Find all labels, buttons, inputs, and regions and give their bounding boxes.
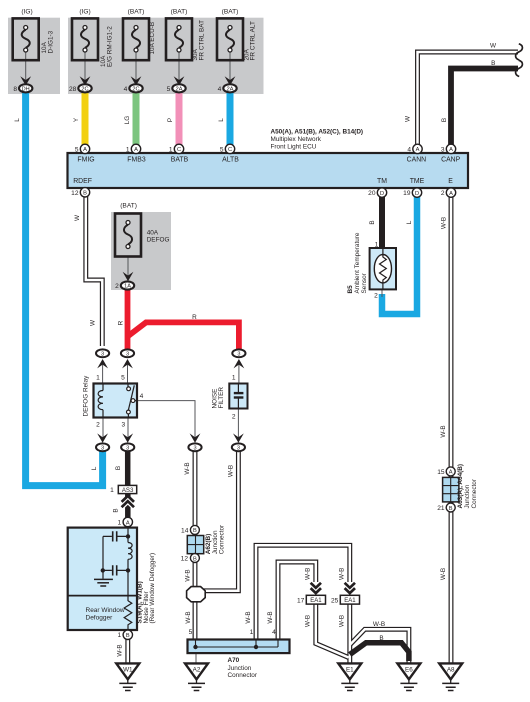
svg-text:W-B: W-B bbox=[184, 569, 191, 581]
svg-text:A: A bbox=[449, 470, 453, 476]
svg-text:D: D bbox=[380, 191, 384, 197]
svg-text:W-B: W-B bbox=[338, 615, 345, 627]
svg-text:1: 1 bbox=[118, 519, 122, 526]
svg-text:L: L bbox=[406, 220, 413, 224]
svg-text:FMIG: FMIG bbox=[77, 156, 94, 163]
svg-text:A8: A8 bbox=[447, 667, 455, 674]
svg-text:B: B bbox=[115, 466, 122, 470]
svg-text:1: 1 bbox=[169, 146, 173, 153]
svg-text:5: 5 bbox=[189, 629, 193, 636]
svg-text:W-B: W-B bbox=[117, 644, 124, 656]
svg-text:3: 3 bbox=[101, 351, 104, 357]
svg-text:5: 5 bbox=[121, 375, 125, 382]
svg-text:CANN: CANN bbox=[407, 156, 427, 163]
svg-text:2: 2 bbox=[441, 190, 445, 197]
svg-text:Y: Y bbox=[73, 117, 80, 122]
svg-text:FR CTRL ALT: FR CTRL ALT bbox=[250, 21, 257, 61]
svg-text:2: 2 bbox=[115, 283, 119, 290]
svg-text:1: 1 bbox=[375, 242, 379, 249]
svg-text:40A: 40A bbox=[147, 230, 159, 237]
svg-text:1A: 1A bbox=[124, 284, 131, 290]
svg-text:A: A bbox=[126, 520, 130, 526]
svg-text:A2: A2 bbox=[193, 667, 201, 674]
svg-text:Connector: Connector bbox=[219, 524, 226, 554]
svg-text:W-B: W-B bbox=[373, 621, 385, 628]
svg-text:P: P bbox=[167, 118, 174, 122]
svg-text:A70: A70 bbox=[228, 657, 240, 664]
svg-text:B: B bbox=[112, 508, 119, 512]
svg-text:Junction: Junction bbox=[228, 665, 252, 672]
svg-text:B: B bbox=[449, 506, 453, 512]
svg-text:1: 1 bbox=[232, 375, 236, 382]
svg-text:RDEF: RDEF bbox=[73, 178, 92, 185]
svg-text:W-B: W-B bbox=[338, 568, 345, 580]
svg-text:A: A bbox=[449, 191, 453, 197]
svg-text:W-B: W-B bbox=[304, 568, 311, 580]
svg-text:Ambient Temperature: Ambient Temperature bbox=[354, 232, 361, 293]
svg-text:B: B bbox=[491, 60, 495, 67]
svg-text:2A: 2A bbox=[176, 86, 183, 92]
svg-text:A: A bbox=[134, 147, 138, 153]
svg-text:Front Light ECU: Front Light ECU bbox=[271, 143, 317, 150]
svg-text:C: C bbox=[228, 147, 232, 153]
svg-text:BATB: BATB bbox=[171, 156, 189, 163]
svg-text:W-B: W-B bbox=[440, 568, 447, 580]
svg-text:R: R bbox=[192, 314, 197, 321]
svg-text:3: 3 bbox=[237, 445, 240, 451]
svg-text:20: 20 bbox=[368, 190, 376, 197]
svg-text:E/G RM-IG1-2: E/G RM-IG1-2 bbox=[106, 26, 113, 67]
svg-text:W: W bbox=[74, 214, 81, 221]
svg-text:15: 15 bbox=[437, 469, 445, 476]
svg-text:Junction: Junction bbox=[464, 484, 471, 508]
svg-text:1: 1 bbox=[110, 487, 114, 494]
svg-text:ALTB: ALTB bbox=[222, 156, 239, 163]
svg-text:3: 3 bbox=[126, 351, 129, 357]
svg-text:W-B: W-B bbox=[440, 217, 447, 229]
svg-text:A: A bbox=[416, 147, 420, 153]
svg-text:(BAT): (BAT) bbox=[171, 9, 188, 16]
svg-text:EA1: EA1 bbox=[310, 598, 322, 604]
svg-text:D-IG1-3: D-IG1-3 bbox=[47, 30, 54, 53]
svg-text:14: 14 bbox=[181, 527, 189, 534]
svg-text:12: 12 bbox=[71, 190, 79, 197]
svg-text:AS3: AS3 bbox=[122, 487, 134, 494]
svg-text:8: 8 bbox=[13, 86, 17, 93]
svg-text:3: 3 bbox=[101, 445, 104, 451]
svg-text:2: 2 bbox=[96, 422, 100, 429]
svg-text:(Rear Window Defogger): (Rear Window Defogger) bbox=[149, 553, 156, 624]
svg-text:DH: DH bbox=[22, 86, 30, 92]
svg-text:1: 1 bbox=[118, 632, 122, 639]
svg-text:W-B: W-B bbox=[245, 611, 252, 623]
svg-text:21: 21 bbox=[437, 505, 445, 512]
svg-text:10A ECU-B: 10A ECU-B bbox=[149, 22, 156, 55]
svg-text:B: B bbox=[83, 191, 87, 197]
svg-text:Multiplex Network: Multiplex Network bbox=[271, 136, 322, 143]
svg-text:A: A bbox=[449, 147, 453, 153]
svg-text:5: 5 bbox=[75, 146, 79, 153]
svg-text:4: 4 bbox=[407, 146, 411, 153]
svg-text:R: R bbox=[117, 320, 124, 325]
svg-text:E6: E6 bbox=[405, 667, 413, 674]
svg-text:1: 1 bbox=[96, 375, 100, 382]
svg-text:25: 25 bbox=[331, 597, 339, 604]
svg-text:A63(A), A64(B): A63(A), A64(B) bbox=[457, 464, 464, 509]
svg-text:FMB3: FMB3 bbox=[127, 156, 146, 163]
svg-text:L: L bbox=[14, 118, 21, 122]
svg-text:1: 1 bbox=[250, 629, 254, 636]
svg-text:Connector: Connector bbox=[228, 672, 258, 679]
svg-text:2C: 2C bbox=[132, 86, 139, 92]
svg-text:LG: LG bbox=[124, 116, 131, 125]
svg-text:W-B: W-B bbox=[184, 462, 191, 474]
svg-text:(BAT): (BAT) bbox=[128, 9, 145, 16]
svg-text:3: 3 bbox=[441, 146, 445, 153]
svg-text:W: W bbox=[405, 115, 412, 122]
svg-text:TME: TME bbox=[410, 178, 425, 185]
svg-text:19: 19 bbox=[403, 190, 411, 197]
svg-text:B: B bbox=[193, 528, 197, 534]
svg-text:2C: 2C bbox=[81, 86, 88, 92]
svg-text:B: B bbox=[441, 118, 448, 122]
svg-text:(BAT): (BAT) bbox=[120, 203, 137, 210]
svg-text:L: L bbox=[91, 466, 98, 470]
svg-text:Rear Window: Rear Window bbox=[86, 607, 125, 614]
svg-text:Connector: Connector bbox=[471, 478, 478, 508]
svg-text:28: 28 bbox=[69, 86, 77, 93]
svg-text:(IG): (IG) bbox=[21, 9, 32, 16]
svg-text:4: 4 bbox=[124, 86, 128, 93]
svg-text:3: 3 bbox=[121, 422, 125, 429]
svg-text:1: 1 bbox=[126, 146, 130, 153]
svg-text:B: B bbox=[379, 635, 383, 642]
svg-text:E1: E1 bbox=[346, 667, 354, 674]
svg-text:DEFOG: DEFOG bbox=[147, 237, 170, 244]
svg-text:DEFOG Relay: DEFOG Relay bbox=[83, 375, 90, 417]
svg-text:2A: 2A bbox=[227, 86, 234, 92]
svg-text:FR CTRL BAT: FR CTRL BAT bbox=[198, 20, 205, 61]
svg-text:2: 2 bbox=[232, 414, 236, 421]
svg-text:A50(A), A51(B), A52(C), B14(D): A50(A), A51(B), A52(C), B14(D) bbox=[271, 129, 364, 136]
svg-text:3: 3 bbox=[193, 445, 196, 451]
svg-text:W: W bbox=[490, 42, 497, 49]
svg-text:TM: TM bbox=[377, 178, 387, 185]
svg-text:12: 12 bbox=[181, 555, 189, 562]
svg-text:4: 4 bbox=[140, 393, 144, 400]
svg-text:(BAT): (BAT) bbox=[222, 9, 239, 16]
svg-text:5: 5 bbox=[220, 146, 224, 153]
svg-text:D: D bbox=[415, 191, 419, 197]
svg-text:C: C bbox=[177, 147, 181, 153]
svg-text:A: A bbox=[83, 147, 87, 153]
svg-text:EA1: EA1 bbox=[344, 598, 356, 604]
svg-text:W-B: W-B bbox=[185, 611, 192, 623]
svg-text:3: 3 bbox=[126, 445, 129, 451]
svg-text:E: E bbox=[448, 178, 453, 185]
svg-text:3: 3 bbox=[237, 351, 240, 357]
svg-text:L: L bbox=[218, 118, 225, 122]
svg-text:W-B: W-B bbox=[267, 611, 274, 623]
svg-text:W-B: W-B bbox=[227, 465, 234, 477]
svg-text:W1: W1 bbox=[123, 667, 133, 674]
svg-text:4: 4 bbox=[272, 629, 276, 636]
svg-text:W-B: W-B bbox=[440, 425, 447, 437]
svg-text:(IG): (IG) bbox=[79, 9, 90, 16]
svg-text:B: B bbox=[193, 556, 197, 562]
svg-text:CANP: CANP bbox=[441, 156, 461, 163]
svg-text:2: 2 bbox=[374, 293, 378, 300]
svg-text:Sensor: Sensor bbox=[361, 272, 368, 293]
svg-text:W-B: W-B bbox=[304, 615, 311, 627]
svg-text:B: B bbox=[369, 220, 376, 224]
svg-text:4: 4 bbox=[218, 86, 222, 93]
svg-text:FILTER: FILTER bbox=[218, 387, 225, 409]
svg-text:W: W bbox=[89, 319, 96, 326]
svg-text:5: 5 bbox=[167, 86, 171, 93]
svg-text:B: B bbox=[126, 633, 130, 639]
svg-text:17: 17 bbox=[297, 597, 305, 604]
svg-text:Defogger: Defogger bbox=[86, 614, 114, 621]
